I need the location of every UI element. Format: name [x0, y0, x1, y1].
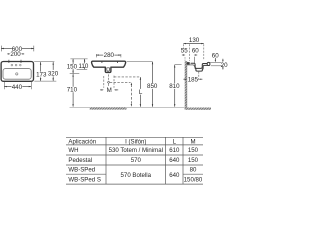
wall hatch band [185, 61, 187, 107]
dim 150 [67, 59, 78, 74]
dim 850 [127, 62, 158, 107]
svg-text:173: 173 [36, 72, 47, 79]
svg-text:I (Sifón): I (Sifón) [125, 138, 146, 145]
dim 110 [78, 59, 88, 70]
tap axis tick [194, 57, 196, 63]
deck-top extension line [211, 65, 223, 67]
svg-text:60: 60 [192, 47, 199, 54]
floor reference line [70, 107, 185, 109]
extension line under 110 [77, 69, 88, 71]
dashed horizontal from diamond [110, 81, 131, 83]
middle floor hatch band [90, 107, 127, 109]
outlet diamond [107, 81, 109, 83]
profile top tick marks [101, 61, 103, 63]
svg-text:640: 640 [169, 172, 180, 179]
table vertical lines [105, 137, 107, 184]
small dashes near wall [184, 57, 186, 61]
rim-top extension line [210, 62, 222, 64]
drain boss inner notch [107, 68, 110, 71]
top extension line for 150/110 [70, 58, 87, 60]
drain hole [16, 73, 18, 75]
svg-text:640: 640 [169, 157, 180, 164]
outlet-height dashed line [131, 82, 132, 106]
dim 440 [4, 84, 31, 91]
svg-text:570: 570 [131, 157, 142, 164]
svg-text:Pedestal: Pedestal [68, 157, 92, 164]
svg-text:200: 200 [10, 51, 21, 58]
dashed extension: basin front [203, 44, 205, 60]
extension line at drain boss bottom [70, 73, 80, 75]
dim L [139, 77, 143, 107]
svg-text:150: 150 [188, 157, 199, 164]
dim 600 extension ticks [1, 46, 34, 52]
dashed vertical B (M right bound) [113, 76, 115, 88]
svg-text:320: 320 [48, 70, 59, 77]
svg-text:WB-SPed S: WB-SPed S [68, 176, 101, 183]
svg-text:850: 850 [147, 83, 158, 90]
basin rim underside line (right view) [187, 64, 193, 66]
inner bowl [3, 69, 31, 80]
dim 20 [221, 59, 228, 70]
svg-text:150: 150 [67, 64, 78, 71]
dim 185 [183, 76, 202, 83]
basin side profile outline [92, 61, 126, 72]
svg-text:WB-SPed: WB-SPed [68, 167, 95, 174]
drain boss (right view) [196, 69, 203, 71]
svg-text:M: M [190, 138, 195, 145]
dim 60 (left) [192, 47, 199, 55]
dim 130 [183, 37, 203, 44]
dim 280 [96, 52, 121, 59]
svg-text:150/80: 150/80 [184, 176, 203, 183]
svg-text:185: 185 [188, 76, 199, 83]
dim 55 [181, 47, 188, 55]
svg-text:55: 55 [181, 47, 188, 54]
svg-text:570 Botella: 570 Botella [121, 172, 152, 179]
svg-text:L: L [139, 89, 143, 96]
dim 60 (right, above deck) [212, 52, 219, 62]
right extension lines [34, 61, 54, 63]
svg-text:80: 80 [190, 167, 197, 174]
floor hatch band (right view) [185, 108, 211, 110]
dim 810 [169, 65, 182, 107]
drain axis (dash-dot) [108, 74, 110, 81]
dim 710 [67, 74, 78, 107]
drain axis dashed (right view) [198, 72, 200, 81]
svg-text:20: 20 [221, 62, 228, 69]
dim 200 [7, 51, 24, 58]
dim 440 extension lines [3, 82, 5, 89]
dashed horizontal to L line [114, 76, 140, 78]
table text [68, 138, 203, 183]
svg-text:610: 610 [169, 147, 180, 154]
dim 600 [1, 46, 34, 53]
svg-text:280: 280 [104, 52, 115, 59]
washbasin front outline [1, 62, 33, 82]
svg-text:110: 110 [78, 63, 88, 70]
basin outer bowl wall left (right view) [193, 65, 195, 69]
dashed extension: wall face axis [188, 44, 190, 61]
rim tick marks [8, 60, 10, 63]
svg-text:130: 130 [189, 37, 200, 44]
svg-text:WH: WH [68, 147, 78, 154]
table horizontal lines [66, 136, 203, 138]
basin rim and bowl (right view) [191, 63, 207, 68]
svg-text:530 Totem / Minimal: 530 Totem / Minimal [109, 147, 163, 154]
svg-text:810: 810 [169, 83, 180, 90]
svg-text:440: 440 [12, 84, 23, 91]
svg-text:L: L [173, 138, 177, 145]
tap holes [11, 64, 13, 66]
dashed vertical A (M left bound) [103, 76, 105, 88]
svg-text:Aplicación: Aplicación [68, 138, 96, 145]
wall face line [186, 61, 188, 107]
dim 173 [36, 62, 47, 81]
svg-text:M: M [107, 87, 112, 94]
dashed extension: wall back [182, 44, 184, 49]
dim 320 [48, 62, 59, 81]
svg-text:710: 710 [67, 87, 78, 94]
deck end pill (right view) [207, 62, 210, 65]
svg-text:150: 150 [188, 147, 199, 154]
dim M [100, 87, 118, 94]
deck underside and outer bowl wall (right view) [203, 65, 207, 69]
mounting bracket at wall [187, 62, 190, 64]
